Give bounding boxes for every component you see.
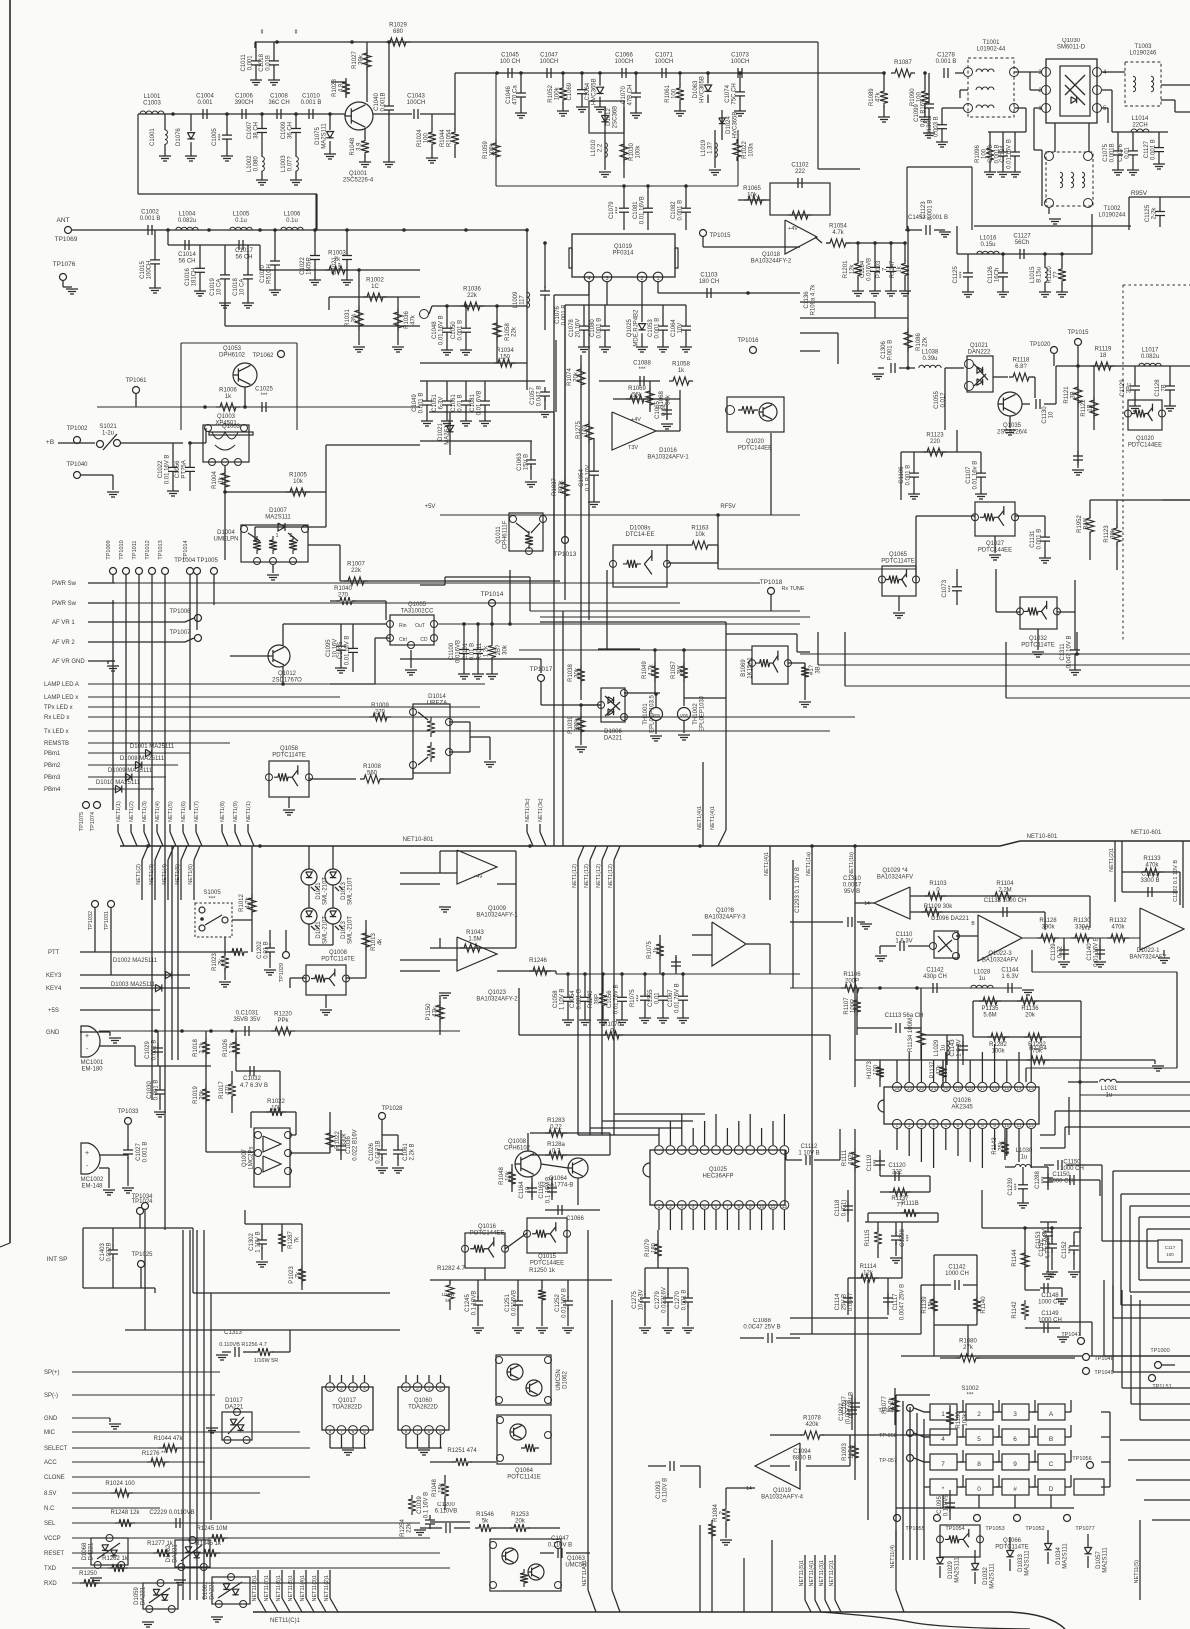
svg-text:4.7 6.3V B: 4.7 6.3V B: [240, 1083, 268, 1089]
svg-text:6: 6: [428, 1429, 431, 1435]
svg-text:100: 100: [874, 1064, 880, 1075]
svg-text:CLONE: CLONE: [44, 1475, 65, 1481]
svg-text:Q1018: Q1018: [762, 252, 781, 258]
svg-text:R1044: R1044: [440, 129, 446, 147]
svg-text:D: D: [1049, 1486, 1054, 1493]
svg-text:R1345 1k: R1345 1k: [195, 1541, 222, 1547]
svg-text:L1003: L1003: [281, 155, 287, 172]
svg-text:C1010: C1010: [302, 94, 320, 100]
svg-text:0.01: 0.01: [655, 992, 661, 1004]
svg-text:NET11(4): NET11(4): [890, 1545, 896, 1569]
svg-text:GND: GND: [46, 1030, 60, 1036]
svg-text:TP1049: TP1049: [1094, 1370, 1113, 1376]
svg-text:20k: 20k: [574, 371, 580, 382]
svg-text:100: 100: [1166, 1252, 1174, 1257]
svg-text:Q1035: Q1035: [1003, 423, 1022, 429]
svg-text:5: 5: [363, 1429, 366, 1435]
svg-text:15: 15: [1004, 1086, 1010, 1092]
svg-text:14: 14: [864, 901, 870, 907]
svg-text:20 16V: 20 16V: [576, 319, 582, 338]
svg-text:23: 23: [907, 1086, 913, 1092]
svg-text:NET11(6)1: NET11(6)1: [276, 1575, 282, 1602]
svg-text:R1139: R1139: [922, 1296, 928, 1314]
svg-text:1k: 1k: [678, 368, 685, 374]
svg-text:L1001: L1001: [144, 94, 161, 100]
svg-text:TP:058: TP:058: [879, 1433, 897, 1439]
svg-text:25V B: 25V B: [842, 1294, 848, 1310]
svg-text:DA221: DA221: [604, 736, 623, 742]
svg-text:Q1005: Q1005: [408, 602, 427, 608]
svg-text:Q1066: Q1066: [1003, 1538, 1022, 1544]
svg-text:R1249: R1249: [588, 990, 594, 1008]
svg-text:7: 7: [340, 1429, 343, 1435]
svg-text:PBm3: PBm3: [44, 775, 61, 781]
svg-text:R1264: R1264: [1029, 1046, 1047, 1052]
svg-text:TA31002CC: TA31002CC: [401, 609, 434, 615]
svg-text:NET1(3): NET1(3): [142, 801, 148, 822]
svg-text:R1201: R1201: [843, 260, 849, 278]
svg-text:Q1019: Q1019: [614, 244, 633, 250]
svg-text:200P: 200P: [845, 979, 859, 985]
svg-text:Q1060: Q1060: [414, 1398, 433, 1404]
svg-text:R1262 1k: R1262 1k: [102, 1556, 129, 1562]
svg-text:1-2u: 1-2u: [102, 431, 114, 437]
svg-text:2SC5226-4: 2SC5226-4: [343, 178, 374, 184]
svg-text:0.02216V: 0.02216V: [662, 1287, 668, 1313]
svg-text:C1127: C1127: [1144, 140, 1150, 158]
svg-text:AK2345: AK2345: [951, 1105, 973, 1111]
svg-text:KEY4: KEY4: [46, 986, 62, 992]
svg-text:PPk: PPk: [277, 1018, 289, 1024]
svg-text:C1074: C1074: [725, 84, 731, 102]
svg-text:C1142: C1142: [948, 1265, 966, 1271]
svg-text:0.01 76V B: 0.01 76V B: [614, 984, 620, 1014]
svg-text:0.001 B: 0.001 B: [1151, 139, 1157, 160]
svg-text:R1036: R1036: [463, 287, 481, 293]
svg-text:R1247: R1247: [890, 260, 896, 278]
svg-text:Rin: Rin: [399, 623, 407, 629]
svg-text:C1288: C1288: [1035, 1171, 1041, 1189]
svg-text:TP1052: TP1052: [1025, 1526, 1044, 1532]
svg-text:R95V: R95V: [1131, 190, 1148, 197]
svg-text:NET11(3)1: NET11(3)1: [819, 1560, 825, 1587]
svg-text:C1073: C1073: [731, 53, 749, 59]
svg-text:D1029: D1029: [948, 1561, 954, 1579]
svg-text:C1050: C1050: [451, 321, 457, 339]
svg-text:BA1032AAFY-4: BA1032AAFY-4: [761, 1495, 803, 1501]
svg-text:NET11(2)1: NET11(2)1: [829, 1560, 835, 1587]
svg-text:C1011: C1011: [241, 54, 247, 72]
svg-text:7: 7: [726, 1204, 729, 1210]
svg-text:UMELPN: UMELPN: [213, 537, 238, 543]
svg-text:D1032: D1032: [983, 1567, 989, 1585]
svg-text:7B: 7B: [1162, 384, 1168, 391]
svg-text:PDTC114TE: PDTC114TE: [995, 1545, 1029, 1551]
svg-text:12k: 12k: [863, 1271, 874, 1277]
svg-text:13: 13: [1029, 1086, 1035, 1092]
svg-text:S1005: S1005: [203, 890, 221, 896]
svg-text:SP(+): SP(+): [44, 1370, 60, 1376]
svg-text:C1139: C1139: [1051, 943, 1057, 961]
svg-text:BA10324AFY-1: BA10324AFY-1: [476, 913, 518, 919]
svg-text:DAN222: DAN222: [968, 350, 991, 356]
svg-text:0.110V B: 0.110V B: [663, 1478, 669, 1502]
svg-text:2.2k: 2.2k: [200, 1041, 206, 1053]
svg-text:1 2k: 1 2k: [230, 1041, 236, 1053]
svg-text:C1078: C1078: [569, 319, 575, 337]
svg-text:0.022B: 0.022B: [107, 1242, 113, 1261]
svg-text:1.3?: 1.3?: [708, 142, 714, 154]
svg-text:C1022: C1022: [158, 460, 164, 478]
svg-text:270: 270: [338, 593, 349, 599]
svg-text:R1250: R1250: [79, 1571, 97, 1577]
svg-text:C1119: C1119: [867, 1154, 873, 1171]
svg-text:0.01 16V B: 0.01 16V B: [439, 315, 445, 345]
svg-text:R1277 1k: R1277 1k: [147, 1541, 174, 1547]
svg-text:1 10V B: 1 10V B: [798, 1151, 819, 1157]
svg-text:C1075: C1075: [1103, 143, 1109, 161]
svg-text:R1250 1k: R1250 1k: [529, 1268, 556, 1274]
svg-text:R1118: R1118: [1013, 358, 1030, 364]
svg-text:15V B: 15V B: [524, 454, 530, 470]
svg-text:0.01 B: 0.01 B: [470, 643, 476, 660]
svg-text:D1062: D1062: [563, 1371, 569, 1389]
svg-text:TP1010: TP1010: [119, 540, 125, 559]
svg-text:12k: 12k: [850, 264, 856, 275]
svg-text:LAMP LED A: LAMP LED A: [44, 682, 79, 688]
svg-text:0.001 B: 0.001 B: [678, 200, 684, 221]
svg-text:R1122: R1122: [1081, 399, 1087, 417]
svg-text:C1066: C1066: [615, 53, 633, 59]
svg-text:VCCP: VCCP: [44, 1536, 61, 1542]
svg-text:0.001: 0.001: [248, 55, 254, 71]
svg-text:C1128: C1128: [1155, 379, 1161, 397]
svg-text:Q1015: Q1015: [538, 1254, 557, 1260]
svg-text:R1074: R1074: [567, 368, 573, 386]
svg-text:C1093: C1093: [656, 1481, 662, 1499]
svg-text:0.0C47 25V B: 0.0C47 25V B: [743, 1325, 780, 1331]
svg-text:R1251 474: R1251 474: [447, 1448, 477, 1454]
svg-text:***: ***: [966, 1393, 974, 1399]
svg-text:R1546: R1546: [476, 1512, 494, 1518]
svg-text:0.001 B: 0.001 B: [143, 1142, 149, 1163]
svg-text:0.1 B 10V: 0.1 B 10V: [586, 465, 592, 491]
svg-text:2k: 2k: [334, 257, 341, 263]
svg-text:***: ***: [219, 133, 225, 141]
svg-text:9: 9: [749, 1204, 752, 1210]
svg-text:0.22: 0.22: [550, 1125, 562, 1131]
svg-text:0.003 B: 0.003 B: [934, 116, 940, 137]
svg-text:Q1008: Q1008: [508, 1139, 527, 1145]
svg-text:TP1054: TP1054: [945, 1526, 964, 1532]
svg-text:1000 CH: 1000 CH: [945, 1271, 969, 1277]
svg-text:C1001: C1001: [150, 128, 156, 146]
svg-text:R1254: R1254: [400, 1519, 406, 1537]
svg-text:C1126: C1126: [988, 266, 994, 284]
svg-text:NET11(4)1: NET11(4)1: [300, 1575, 306, 1602]
svg-text:C1018: C1018: [259, 53, 265, 71]
svg-text:0.22: 0.22: [1058, 946, 1064, 958]
svg-text:NET1(1): NET1(1): [246, 801, 252, 822]
svg-text:PDTC114TE: PDTC114TE: [881, 559, 915, 565]
svg-text:CPH6111F: CPH6111F: [503, 520, 509, 549]
svg-text:2k: 2k: [219, 958, 225, 965]
svg-text:T1001: T1001: [982, 40, 1000, 46]
svg-text:L1029: L1029: [934, 1039, 940, 1056]
svg-text:AF VR 1: AF VR 1: [52, 620, 75, 626]
svg-text:SML-210T: SML-210T: [348, 877, 354, 905]
svg-text:C1275: C1275: [632, 1291, 638, 1309]
svg-text:TP1040: TP1040: [66, 462, 88, 468]
svg-text:16Ch: 16Ch: [995, 268, 1001, 282]
svg-text:R1028: R1028: [332, 79, 338, 97]
svg-text:SM6011-D: SM6011-D: [1057, 45, 1086, 51]
svg-text:C1047: C1047: [540, 53, 558, 59]
svg-text:TP1014: TP1014: [183, 540, 189, 559]
svg-text:C1027: C1027: [136, 1143, 142, 1161]
svg-text:C1245: C1245: [465, 1294, 471, 1312]
svg-text:47k: 47k: [411, 314, 417, 325]
svg-text:C1125: C1125: [953, 266, 959, 284]
svg-text:0.01 76V B: 0.01 76V B: [675, 983, 681, 1013]
svg-text:10k: 10k: [695, 532, 706, 538]
svg-text:180 CH: 180 CH: [699, 279, 719, 285]
svg-text:EM-148: EM-148: [81, 1184, 103, 1190]
svg-text:56 CH: 56 CH: [178, 259, 195, 265]
svg-text:MA2S111: MA2S111: [1025, 1550, 1031, 1576]
svg-text:C1005: C1005: [212, 128, 218, 146]
svg-text:4.7k: 4.7k: [832, 230, 844, 236]
svg-text:C1311: C1311: [1060, 643, 1066, 661]
svg-text:Tx LED x: Tx LED x: [44, 729, 69, 735]
svg-text:BA10324AFV-1: BA10324AFV-1: [647, 455, 689, 461]
svg-text:MA2S111: MA2S111: [322, 123, 328, 149]
svg-text:L1004: L1004: [179, 212, 196, 218]
svg-text:DA221: DA221: [210, 1581, 216, 1600]
svg-text:TP1012: TP1012: [145, 540, 151, 559]
svg-text:Q1029 *4: Q1029 *4: [882, 868, 908, 874]
svg-text:#: #: [1013, 1486, 1017, 1493]
svg-text:D1013: D1013: [341, 921, 347, 939]
svg-text:NET1(9): NET1(9): [233, 801, 239, 822]
svg-text:MDE.RJP4B2: MDE.RJP4B2: [634, 309, 640, 347]
svg-text:C1064: C1064: [585, 82, 591, 100]
svg-text:22k: 22k: [351, 568, 362, 574]
svg-text:C1022: C1022: [300, 257, 306, 275]
svg-text:TP1053: TP1053: [985, 1526, 1004, 1532]
svg-text:C1279: C1279: [655, 1291, 661, 1309]
svg-text:0.15u: 0.15u: [980, 242, 995, 248]
svg-text:MA2S111: MA2S111: [1103, 1547, 1109, 1573]
svg-text:9: 9: [993, 1123, 996, 1129]
svg-text:4k: 4k: [378, 938, 384, 945]
svg-text:R1084: R1084: [713, 1504, 719, 1522]
svg-text:TP1056: TP1056: [1072, 1456, 1091, 1462]
svg-text:C1095: C1095: [326, 639, 332, 657]
svg-text:470k: 470k: [1145, 863, 1159, 869]
svg-text:1C: 1C: [371, 284, 379, 290]
svg-text:TP1069: TP1069: [55, 236, 78, 243]
svg-text:R1130: R1130: [1073, 918, 1091, 924]
svg-text:C1035: C1035: [338, 641, 344, 659]
svg-text:C1043: C1043: [407, 94, 425, 100]
svg-text:2: 2: [340, 1386, 343, 1392]
svg-text:MC1002: MC1002: [81, 1177, 104, 1183]
svg-text:NET11(4)1: NET11(4)1: [809, 1560, 815, 1587]
svg-text:14: 14: [1016, 1086, 1022, 1092]
svg-text:PDTC114TE: PDTC114TE: [272, 753, 306, 759]
svg-text:C1058: C1058: [553, 990, 559, 1008]
svg-text:L1016: L1016: [980, 236, 997, 242]
svg-text:C1045: C1045: [501, 53, 519, 59]
svg-text:1: 1: [941, 1411, 945, 1418]
svg-text:56k: 56k: [632, 393, 643, 399]
svg-text:10 CA: 10 CA: [240, 279, 246, 296]
svg-text:C1150: C1150: [1052, 1172, 1070, 1178]
svg-text:R1075: R1075: [630, 989, 636, 1007]
svg-text:UMC5N: UMC5N: [556, 1369, 562, 1390]
svg-text:4.9: 4.9: [339, 83, 345, 92]
svg-text:1u: 1u: [941, 1045, 947, 1052]
svg-text:3B: 3B: [1071, 391, 1077, 398]
svg-text:1: 1: [329, 1386, 332, 1392]
svg-text:L1038: L1038: [922, 350, 939, 356]
svg-text:2SD1767O: 2SD1767O: [272, 678, 302, 684]
svg-text:C1080: C1080: [590, 319, 596, 337]
svg-text:0.001 B: 0.001 B: [419, 393, 425, 414]
svg-text:4: 4: [439, 1386, 442, 1392]
svg-text:TP1013: TP1013: [554, 551, 577, 558]
svg-text:0.001 B: 0.001 B: [906, 465, 912, 486]
svg-text:Q1053: Q1053: [223, 346, 242, 352]
svg-text:***: ***: [637, 994, 643, 1002]
svg-text:D1002 MA25111: D1002 MA25111: [113, 958, 158, 964]
svg-text:C1046: C1046: [506, 86, 512, 104]
svg-text:0.01B: 0.01B: [266, 55, 272, 71]
svg-text:R1106: R1106: [843, 972, 861, 978]
svg-text:150: 150: [500, 355, 511, 361]
svg-text:30k: 30k: [575, 667, 581, 678]
svg-text:NET1(12): NET1(12): [584, 864, 590, 888]
svg-text:22k: 22k: [512, 326, 518, 337]
svg-text:NET1(12): NET1(12): [608, 864, 614, 888]
svg-text:8: 8: [329, 1429, 332, 1435]
svg-text:C1228: C1228: [900, 1229, 906, 1247]
svg-text:0.1 10V B: 0.1 10V B: [849, 1392, 855, 1418]
svg-text:TP1048: TP1048: [1094, 1356, 1113, 1362]
svg-text:0.01 16V B: 0.01 16V B: [345, 636, 351, 666]
svg-text:***: ***: [616, 206, 622, 214]
svg-text:TDA2822D: TDA2822D: [332, 1405, 362, 1411]
svg-text:430p CH: 430p CH: [923, 974, 947, 980]
svg-text:100: 100: [672, 88, 678, 99]
svg-text:TP1006: TP1006: [169, 609, 191, 615]
svg-text:PT?5A: PT?5A: [182, 460, 188, 478]
svg-text:R1002: R1002: [366, 278, 384, 284]
svg-text:DPH6102: DPH6102: [219, 353, 246, 359]
svg-text:0.001 B: 0.001 B: [936, 59, 957, 65]
svg-text:TP1013: TP1013: [158, 540, 164, 559]
svg-text:L1010: L1010: [591, 139, 597, 156]
svg-text:XP4501: XP4501: [215, 421, 237, 427]
svg-text:420k: 420k: [805, 1422, 819, 1428]
svg-text:Q1026: Q1026: [953, 1098, 972, 1104]
svg-text:0.0116VB: 0.0116VB: [512, 1290, 518, 1316]
svg-text:EPL0EP103J: EPL0EP103J: [700, 696, 706, 732]
svg-text:C1293 0.1 10V B: C1293 0.1 10V B: [795, 867, 801, 913]
svg-text:Q1009: Q1009: [488, 906, 507, 912]
svg-text:C1114: C1114: [835, 1293, 841, 1310]
svg-text:R1037: R1037: [552, 478, 558, 496]
svg-text:R1031: R1031: [345, 309, 351, 327]
svg-text:5K: 5K: [445, 1298, 451, 1303]
svg-text:C2229 0.0110VB: C2229 0.0110VB: [149, 1510, 194, 1516]
svg-text:TP1032: TP1032: [88, 911, 94, 930]
svg-text:D1096 DA221: D1096 DA221: [931, 916, 969, 922]
svg-text:B: B: [1049, 1436, 1053, 1443]
svg-text:0.082u: 0.082u: [178, 218, 196, 224]
svg-text:R1075: R1075: [647, 941, 653, 959]
svg-text:R1123: R1123: [1104, 525, 1110, 543]
svg-text:R1276 ***: R1276 ***: [142, 1451, 169, 1457]
svg-text:NET1(3c): NET1(3c): [538, 798, 544, 822]
svg-text:22: 22: [919, 1086, 925, 1092]
svg-text:30k: 30k: [503, 644, 509, 655]
svg-text:0.0047: 0.0047: [843, 883, 862, 889]
svg-text:R1009: R1009: [371, 703, 389, 709]
svg-text:SEL: SEL: [44, 1521, 56, 1527]
svg-text:PTT: PTT: [48, 950, 60, 956]
svg-text:L1005: L1005: [233, 212, 250, 218]
svg-text:R1119: R1119: [1095, 347, 1112, 353]
svg-text:R1096: R1096: [975, 145, 981, 163]
svg-text:100CH: 100CH: [615, 59, 634, 65]
svg-text:95V B: 95V B: [844, 889, 860, 895]
svg-text:TP1014: TP1014: [481, 591, 504, 598]
svg-text:R1054: R1054: [447, 129, 453, 147]
svg-text:0.01 16VB: 0.01 16VB: [640, 196, 646, 224]
svg-text:C1403: C1403: [100, 1243, 106, 1261]
svg-text:D1021: D1021: [438, 423, 444, 441]
svg-text:C1015: C1015: [140, 261, 146, 279]
svg-text:NET1(7): NET1(7): [194, 801, 200, 822]
svg-text:NET11(2)1: NET11(2)1: [324, 1575, 330, 1602]
svg-text:BA10324AFV: BA10324AFV: [982, 958, 1018, 964]
svg-text:20k: 20k: [515, 1519, 526, 1525]
svg-text:1: 1: [405, 1386, 408, 1392]
svg-text:R1024: R1024: [417, 129, 423, 147]
svg-text:TP-057: TP-057: [879, 1458, 897, 1464]
svg-text:C1165: C1165: [539, 1181, 545, 1199]
svg-text:222: 222: [892, 1170, 903, 1176]
svg-text:C1048: C1048: [432, 321, 438, 339]
svg-text:B/W: B/W: [1084, 518, 1090, 530]
svg-text:R1093: R1093: [842, 1443, 848, 1461]
svg-text:D1057: D1057: [1096, 1551, 1102, 1569]
svg-text:C1073: C1073: [942, 579, 948, 597]
svg-text:C1202: C1202: [257, 941, 263, 959]
svg-text:Q1023: Q1023: [488, 990, 507, 996]
svg-text:TP1025: TP1025: [131, 1252, 153, 1258]
svg-text:D1011: D1011: [316, 921, 322, 939]
svg-text:C1151: C1151: [1039, 1239, 1045, 1257]
svg-text:P1150: P1150: [426, 1003, 432, 1021]
svg-text:C1065: C1065: [655, 401, 661, 419]
svg-text:NET1(2)1: NET1(2)1: [1109, 848, 1115, 872]
svg-text:R1003: R1003: [328, 251, 346, 257]
svg-text:0.016VB: 0.016VB: [867, 258, 873, 281]
svg-text:DA221: DA221: [173, 1544, 179, 1563]
